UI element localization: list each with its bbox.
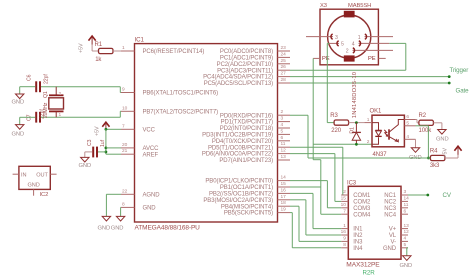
svg-text:AREF: AREF [143, 152, 159, 158]
svg-text:28: 28 [281, 77, 287, 83]
wire CV from IC3 NC1 [408, 194, 428, 196]
svg-text:GND: GND [12, 100, 25, 106]
svg-text:16: 16 [341, 229, 347, 235]
svg-text:VCC: VCC [143, 127, 156, 133]
capacitor C3 [87, 139, 106, 157]
svg-text:PD1(TXD/PCINT17): PD1(TXD/PCINT17) [221, 120, 274, 126]
svg-text:GND: GND [79, 163, 92, 169]
svg-text:GND: GND [143, 206, 157, 212]
svg-text:NC4: NC4 [384, 212, 396, 218]
svg-text:23: 23 [281, 45, 287, 51]
svg-text:13: 13 [281, 154, 287, 160]
svg-text:16: 16 [281, 187, 287, 193]
svg-text:20: 20 [122, 142, 128, 148]
wire RXD net (PD0 to opto output) [290, 115, 428, 158]
svg-text:PD6(AIN0/OC0A/PCINT22): PD6(AIN0/OC0A/PCINT22) [202, 152, 273, 158]
svg-text:R1: R1 [95, 42, 103, 48]
power +5V symbol (VCC) [95, 122, 110, 136]
svg-text:1: 1 [343, 223, 346, 229]
wire C6 to IC1 pin9 [41, 87, 121, 93]
node Gate [448, 82, 469, 95]
svg-text:Gate: Gate [456, 88, 470, 95]
svg-text:GND: GND [28, 182, 40, 188]
svg-text:GND: GND [400, 263, 413, 269]
svg-text:8: 8 [343, 242, 346, 248]
svg-text:3: 3 [335, 35, 338, 41]
svg-text:ATMEGA48/88/168-PU: ATMEGA48/88/168-PU [135, 225, 201, 232]
svg-text:PB6(XTAL1/TOSC1/PCINT6): PB6(XTAL1/TOSC1/PCINT6) [143, 91, 219, 97]
IC1 left pins 1,9,10,7,20,21,22,8 [121, 45, 218, 212]
svg-text:PB4(MISO/PCINT4): PB4(MISO/PCINT4) [221, 204, 273, 210]
svg-text:PE: PE [368, 56, 376, 62]
ground AGND [98, 216, 111, 231]
svg-text:2: 2 [343, 189, 346, 195]
svg-text:D1: D1 [350, 127, 356, 134]
svg-text:100k: 100k [419, 128, 433, 134]
svg-text:PC1(ADC1/PCINT9): PC1(ADC1/PCINT9) [220, 56, 273, 62]
svg-text:1N4148DO35-10: 1N4148DO35-10 [352, 72, 358, 118]
svg-text:13: 13 [404, 223, 410, 229]
OK1 pin labels [367, 114, 410, 145]
svg-text:COM2: COM2 [353, 200, 371, 206]
svg-text:4: 4 [404, 236, 407, 242]
diode D1 1N4148 [350, 72, 361, 145]
svg-text:NC1: NC1 [384, 193, 396, 199]
svg-text:22: 22 [122, 188, 128, 194]
wire IC3 GND pin to ground [407, 248, 408, 256]
power +5V symbol (opto pullup) [443, 146, 462, 157]
svg-text:2: 2 [346, 49, 349, 55]
svg-text:7: 7 [343, 208, 346, 214]
svg-text:21: 21 [122, 148, 128, 154]
connector X3 MAB5SH body [320, 3, 378, 65]
svg-text:OK1: OK1 [370, 109, 382, 115]
ground for C3 [79, 152, 93, 169]
svg-text:25: 25 [281, 58, 287, 64]
wire Gate from IC1 pin28 [290, 82, 449, 84]
svg-text:5: 5 [341, 42, 344, 48]
svg-text:5: 5 [404, 242, 407, 248]
svg-text:19: 19 [281, 207, 287, 213]
capacitor C7 [27, 109, 46, 123]
crystal Q1 [43, 87, 64, 118]
svg-text:10: 10 [122, 105, 128, 111]
svg-text:12: 12 [281, 148, 287, 154]
svg-text:PD3(INT1/OC2B/PCINT19): PD3(INT1/OC2B/PCINT19) [202, 133, 273, 139]
svg-text:CV: CV [443, 192, 452, 199]
svg-text:4N37: 4N37 [373, 152, 388, 158]
wire OK1 pin2 to D1 bottom and PE net [313, 143, 372, 146]
node CV [426, 192, 451, 199]
ground for IC3 [400, 256, 413, 269]
IC1 right pins 23-28,2-6,11-13,14-19 [202, 45, 290, 217]
wire +5V rail down to AVCC/AREF [105, 129, 108, 154]
svg-text:IC1: IC1 [135, 37, 145, 44]
svg-text:14: 14 [404, 196, 410, 202]
X3 pin 4 [352, 41, 390, 48]
regulator IC2 body [19, 166, 50, 198]
IC3 left pins COM1-4 IN1-4 [341, 189, 371, 252]
wire bundle IC1 PD5,PD6,PB0-PB5 to IC3 [290, 147, 343, 248]
svg-text:PB2(/SS/OC1B/PCINT2): PB2(/SS/OC1B/PCINT2) [209, 192, 273, 198]
svg-text:COM1: COM1 [353, 193, 371, 199]
svg-text:VL: VL [389, 233, 397, 239]
svg-text:R2R: R2R [363, 269, 376, 276]
svg-text:24: 24 [281, 51, 287, 57]
resistor R2 [419, 113, 434, 134]
op-amp IC1 ATMEGA48/88/168-PU body [135, 37, 278, 232]
svg-text:11: 11 [281, 141, 286, 147]
svg-text:+5V: +5V [79, 43, 85, 53]
svg-text:10: 10 [341, 202, 347, 208]
svg-text:MAX312PE: MAX312PE [346, 262, 380, 269]
wire +5V to VCC pin7 [105, 128, 122, 131]
wire DIN pin5 down to R3 [327, 43, 334, 122]
X3 pin 1 [358, 34, 393, 41]
svg-text:Q1: Q1 [43, 91, 49, 98]
X3 pin 3 [306, 34, 338, 41]
svg-text:IC2: IC2 [40, 192, 49, 198]
svg-text:3k3: 3k3 [430, 163, 440, 169]
svg-text:20MHz: 20MHz [43, 102, 49, 118]
svg-text:GND: GND [111, 226, 124, 232]
capacitor C6 [27, 74, 50, 93]
svg-text:12: 12 [404, 229, 410, 235]
svg-text:4: 4 [352, 42, 355, 48]
svg-text:C3: C3 [87, 139, 93, 146]
wire Trigger from IC1 pin27 [290, 76, 449, 78]
wire GND pin8 to ground [120, 207, 122, 216]
svg-text:Trigger: Trigger [450, 67, 469, 74]
svg-text:GND: GND [436, 137, 449, 143]
wire R4 to +5V [445, 153, 458, 158]
svg-text:IN2: IN2 [353, 233, 363, 239]
svg-text:PB7(XTAL2/TOSC2/PCINT7): PB7(XTAL2/TOSC2/PCINT7) [143, 109, 219, 115]
svg-text:PC0(ADC0/PCINT8): PC0(ADC0/PCINT8) [220, 49, 273, 55]
svg-text:AVCC: AVCC [143, 146, 160, 152]
ground GND [111, 216, 125, 231]
node Trigger [448, 67, 468, 78]
wire R2 to ground [433, 123, 442, 130]
svg-text:GND: GND [12, 131, 25, 137]
ground for C6 [12, 87, 36, 106]
svg-text:17: 17 [281, 194, 287, 200]
svg-text:V-: V- [391, 240, 397, 246]
svg-text:27: 27 [281, 71, 287, 77]
svg-text:1: 1 [59, 112, 62, 118]
X3 pin 5 [329, 41, 344, 48]
wire DIN pin4 to IC1 pin26 (PC3) [290, 43, 406, 70]
svg-text:PB1(OC1A/PCINT1): PB1(OC1A/PCINT1) [220, 185, 273, 191]
svg-text:5: 5 [281, 128, 284, 134]
wire to AVCC pin20 [106, 147, 121, 149]
resistor R4 [428, 148, 445, 169]
svg-text:2: 2 [59, 91, 62, 97]
svg-text:11: 11 [404, 202, 409, 208]
svg-text:PD0(RXD/PCINT16): PD0(RXD/PCINT16) [220, 113, 273, 119]
svg-text:PE: PE [322, 56, 330, 62]
svg-text:IN: IN [21, 173, 26, 179]
svg-text:PB0(ICP1/CLKO/PCINT0): PB0(ICP1/CLKO/PCINT0) [205, 179, 273, 185]
svg-text:PB5(SCK/PCINT5): PB5(SCK/PCINT5) [224, 211, 273, 217]
svg-text:COM4: COM4 [353, 212, 371, 218]
svg-text:PD5(T1/OC0B/PCINT21): PD5(T1/OC0B/PCINT21) [208, 145, 273, 151]
wire R3 to OK1 pin1 [349, 121, 365, 124]
X3 PE left pin [313, 56, 330, 62]
wire to AREF pin21 [106, 153, 121, 155]
svg-text:GND: GND [98, 226, 111, 232]
ground for C7 [12, 117, 36, 137]
svg-text:9: 9 [343, 236, 346, 242]
svg-text:IN4: IN4 [353, 246, 363, 252]
svg-text:V+: V+ [389, 227, 397, 233]
svg-text:MAB5SH: MAB5SH [348, 3, 371, 9]
svg-text:R3: R3 [330, 113, 338, 119]
X3 PE right pin [368, 56, 386, 62]
svg-text:IN1: IN1 [353, 227, 363, 233]
IC3 right pins NC1-4 V+ VL V- GND [383, 189, 409, 252]
svg-text:22pf: 22pf [44, 74, 50, 84]
resistor R3 [330, 113, 348, 134]
analog switch IC3 MAX312 body [346, 180, 401, 276]
svg-text:PD2(INT0/PCINT18): PD2(INT0/PCINT18) [220, 126, 273, 132]
svg-text:R2: R2 [419, 113, 427, 119]
svg-text:R4: R4 [430, 148, 438, 154]
svg-text:GND: GND [383, 246, 397, 252]
svg-text:1: 1 [122, 45, 125, 51]
ground for OK1 pin4 [409, 148, 422, 161]
svg-text:PC5(ADC5/SCL/PCINT13): PC5(ADC5/SCL/PCINT13) [204, 81, 273, 87]
wire R1 to IC1 pin1 [113, 50, 121, 52]
svg-text:26: 26 [281, 64, 287, 70]
svg-text:1: 1 [358, 35, 361, 41]
svg-text:PD4(T0/XCK/PCINT20): PD4(T0/XCK/PCINT20) [212, 139, 273, 145]
svg-text:AGND: AGND [143, 192, 161, 198]
svg-text:X3: X3 [320, 3, 327, 9]
svg-text:6: 6 [404, 208, 407, 214]
svg-text:14: 14 [281, 175, 287, 181]
svg-text:3: 3 [281, 116, 284, 122]
ground for R2 [436, 130, 449, 143]
svg-text:IN3: IN3 [353, 240, 363, 246]
svg-text:220: 220 [331, 128, 341, 134]
resistor R1 [95, 42, 114, 63]
optocoupler OK1 4N37 body [370, 109, 405, 158]
IC2 pin stubs [13, 174, 57, 196]
wire OK1 pin5 to R4 junction [416, 126, 430, 160]
svg-text:1k: 1k [95, 57, 102, 63]
svg-text:8: 8 [122, 201, 125, 207]
svg-text:9: 9 [122, 87, 125, 93]
svg-text:4: 4 [281, 122, 284, 128]
wire PE net down [313, 58, 321, 187]
svg-text:NC2: NC2 [384, 200, 396, 206]
svg-text:PC6(/RESET/PCINT14): PC6(/RESET/PCINT14) [143, 49, 205, 55]
wire OK1 pin4 to ground [415, 139, 417, 147]
svg-text:IC3: IC3 [347, 180, 357, 186]
wire C7 to IC1 pin10 [41, 111, 121, 117]
svg-text:+5V: +5V [95, 126, 101, 136]
svg-text:7: 7 [122, 123, 125, 129]
svg-text:6: 6 [281, 135, 284, 141]
svg-text:OUT: OUT [36, 173, 48, 179]
svg-text:18: 18 [281, 200, 287, 206]
X3 pin 2 [346, 48, 393, 55]
svg-text:C6: C6 [27, 74, 33, 81]
svg-text:COM3: COM3 [353, 206, 371, 212]
power +5V symbol (reset pullup) [79, 36, 96, 53]
svg-text:PB3(MOSI/OC2A/PCINT3): PB3(MOSI/OC2A/PCINT3) [203, 198, 273, 204]
svg-text:PD7(AIN1/PCINT23): PD7(AIN1/PCINT23) [219, 158, 273, 164]
svg-text:15: 15 [341, 196, 347, 202]
OK1 pin stubs [364, 120, 415, 140]
svg-text:3: 3 [404, 189, 407, 195]
wire +5V to R1 [92, 45, 98, 52]
svg-text:+5V: +5V [443, 148, 449, 158]
svg-text:1uf: 1uf [100, 139, 106, 147]
svg-text:PC2(ADC2/PCINT10): PC2(ADC2/PCINT10) [217, 62, 273, 68]
svg-text:2: 2 [367, 139, 370, 145]
wire OK1 pin6 to R2 [416, 120, 419, 123]
wire AGND pin22 to ground [106, 194, 121, 216]
svg-text:15: 15 [281, 181, 287, 187]
svg-text:PC4(ADC4/SDA/PCINT12): PC4(ADC4/SDA/PCINT12) [203, 75, 273, 81]
svg-text:PC3(ADC3/PCINT11): PC3(ADC3/PCINT11) [217, 68, 273, 74]
svg-text:2: 2 [281, 109, 284, 115]
svg-text:NC3: NC3 [384, 206, 396, 212]
